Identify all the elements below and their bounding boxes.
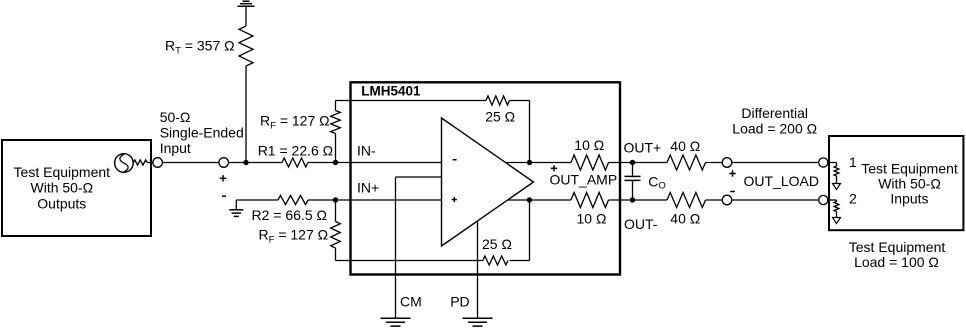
label 50-Ω Single-Ended Input	[160, 109, 244, 156]
svg-text:RT = 357 Ω: RT = 357 Ω	[165, 38, 235, 57]
svg-text:Test Equipment: Test Equipment	[14, 164, 111, 180]
op-amp U1 (fully differential)	[442, 118, 534, 246]
wire pin 1 to RIN1	[828, 163, 837, 167]
svg-text:Inputs: Inputs	[890, 190, 928, 206]
svg-text:CO: CO	[648, 173, 666, 191]
terminal J6 (pin 2 open circle)	[819, 195, 828, 204]
resistor 40 Ω (top)	[667, 155, 706, 170]
resistor RS (source 50-Ω output impedance)	[134, 160, 148, 165]
svg-text:Single-Ended: Single-Ended	[160, 125, 244, 141]
wire 25 Ω top to node C	[510, 101, 530, 163]
wire 10 Ω to node F	[609, 162, 668, 164]
label Test Equipment With 50-Ω Inputs	[861, 161, 958, 207]
ground (CM pin)	[381, 318, 411, 326]
test equipment output box	[2, 140, 151, 236]
svg-text:40 Ω: 40 Ω	[670, 138, 700, 154]
wire ground to RT	[245, 6, 247, 26]
wire 40 Ω to terminal J3	[706, 162, 723, 164]
svg-text:With 50-Ω: With 50-Ω	[31, 180, 94, 196]
op-amp inverting input mark	[453, 159, 457, 161]
capacitor CO	[625, 163, 641, 201]
svg-text:50-Ω: 50-Ω	[160, 109, 191, 125]
test equipment input box	[829, 136, 963, 230]
svg-text:Outputs: Outputs	[37, 195, 86, 211]
label Differential Load = 200 Ω	[732, 105, 817, 137]
wire CM connection	[396, 177, 442, 318]
wire RF top to 25 Ω top	[336, 101, 487, 163]
resistor RIN2 (pin 2 termination)	[834, 202, 839, 212]
chassis arrow 2	[833, 218, 841, 224]
terminal J3 (OUT+ open circle)	[722, 158, 732, 168]
svg-text:1: 1	[849, 154, 857, 170]
resistor RF (top feedback)	[331, 111, 341, 134]
label + (OUT_LOAD polarity)	[729, 170, 735, 176]
wire J1 to terminal J2	[162, 162, 219, 164]
svg-text:R2 = 66.5 Ω: R2 = 66.5 Ω	[252, 207, 327, 223]
resistor R1	[282, 158, 308, 167]
resistor 25 Ω (top internal)	[486, 96, 510, 105]
resistor 10 Ω (bottom output)	[571, 193, 609, 208]
wire J4 to terminal J6	[732, 199, 819, 201]
svg-text:IN-: IN-	[357, 143, 376, 159]
wire pin 2 to RIN2	[828, 200, 837, 202]
svg-text:Test Equipment: Test Equipment	[861, 161, 958, 177]
IC U1 LMH5401 box	[351, 82, 621, 274]
svg-text:RF = 127 Ω: RF = 127 Ω	[259, 226, 329, 245]
wire J3 to terminal J5	[732, 162, 819, 164]
wire RT to node A	[245, 66, 247, 163]
node D (junction IN+ / RF)	[333, 197, 338, 202]
wire R2 to op-amp IN+	[308, 199, 442, 201]
svg-text:Input: Input	[160, 140, 191, 156]
resistor RF (bottom feedback)	[331, 222, 341, 249]
wire RF bottom to 25 Ω bottom	[336, 200, 484, 261]
terminal J5 (pin 1 open circle)	[819, 158, 828, 167]
label Test Equipment With 50-Ω Outputs	[14, 164, 111, 211]
ground (PD pin)	[463, 318, 493, 326]
svg-text:LMH5401: LMH5401	[361, 84, 421, 99]
resistor 40 Ω (bottom)	[667, 193, 706, 208]
ground (input side)	[229, 210, 243, 217]
svg-text:Load = 200 Ω: Load = 200 Ω	[732, 121, 817, 137]
terminal J4 (OUT- open circle)	[722, 195, 732, 205]
svg-text:With 50-Ω: With 50-Ω	[878, 176, 941, 192]
wire RIN1 to chassis arrow 1	[836, 176, 838, 184]
label + (input polarity)	[220, 175, 226, 181]
svg-text:CM: CM	[400, 293, 422, 309]
wire J2 to node A	[229, 162, 283, 164]
wire 25 Ω bottom to node E	[510, 200, 530, 261]
svg-text:25 Ω: 25 Ω	[482, 236, 512, 252]
svg-text:RF = 127 Ω: RF = 127 Ω	[260, 113, 330, 132]
op-amp non-inverting input mark	[452, 197, 457, 202]
chassis arrow 1	[833, 184, 841, 190]
svg-text:40 Ω: 40 Ω	[670, 211, 700, 227]
node B (junction IN- / RF)	[333, 160, 338, 165]
wire RIN2 to chassis arrow 2	[836, 212, 838, 218]
node F (junction at CO top)	[630, 160, 635, 165]
label - (input polarity)	[222, 195, 226, 197]
svg-text:25 Ω: 25 Ω	[485, 108, 515, 124]
svg-text:Test Equipment: Test Equipment	[849, 239, 946, 255]
svg-text:Differential: Differential	[741, 105, 808, 121]
wire 10 Ω to node G	[609, 199, 668, 201]
resistor RIN1 (pin 1 termination)	[834, 166, 839, 176]
node G (junction at CO bottom)	[630, 197, 635, 202]
terminal J2 (open circle)	[219, 158, 229, 168]
node C (top output junction)	[527, 160, 532, 165]
svg-text:OUT+: OUT+	[624, 139, 662, 155]
node E (bottom output junction)	[527, 197, 532, 202]
svg-text:OUT_LOAD: OUT_LOAD	[744, 173, 819, 189]
wire R1 to op-amp IN-	[308, 162, 442, 164]
svg-text:Load = 100 Ω: Load = 100 Ω	[854, 254, 939, 270]
wire op-amp OUT- to 10 Ω	[508, 199, 571, 201]
resistor RT	[239, 26, 253, 66]
svg-text:2: 2	[849, 190, 857, 206]
wire 40 Ω to terminal J4	[706, 199, 723, 201]
svg-text:R1 = 22.6 Ω: R1 = 22.6 Ω	[258, 142, 333, 158]
wire RS to terminal J1	[147, 162, 153, 164]
svg-text:IN+: IN+	[357, 179, 379, 195]
svg-text:OUT_AMP: OUT_AMP	[550, 172, 618, 188]
svg-text:PD: PD	[450, 293, 469, 309]
source VS (signal generator)	[115, 154, 134, 173]
wire ground to R2	[236, 200, 278, 210]
terminal J1 (open circle)	[153, 158, 163, 168]
label - (OUT_LOAD polarity)	[730, 191, 735, 193]
label + (OUT_AMP polarity)	[551, 165, 557, 171]
label Test Equipment Load = 100 Ω	[849, 239, 946, 270]
ground (top, inverted)	[238, 1, 255, 6]
resistor 25 Ω (bottom internal)	[483, 256, 508, 265]
svg-text:10 Ω: 10 Ω	[577, 211, 607, 227]
resistor R2	[278, 196, 308, 205]
svg-text:10 Ω: 10 Ω	[574, 137, 604, 153]
node A (junction)	[243, 160, 248, 165]
resistor 10 Ω (top output)	[571, 155, 609, 170]
wire PD connection	[477, 221, 479, 318]
svg-text:OUT-: OUT-	[624, 216, 658, 232]
wire op-amp OUT+ to 10 Ω	[506, 162, 572, 164]
